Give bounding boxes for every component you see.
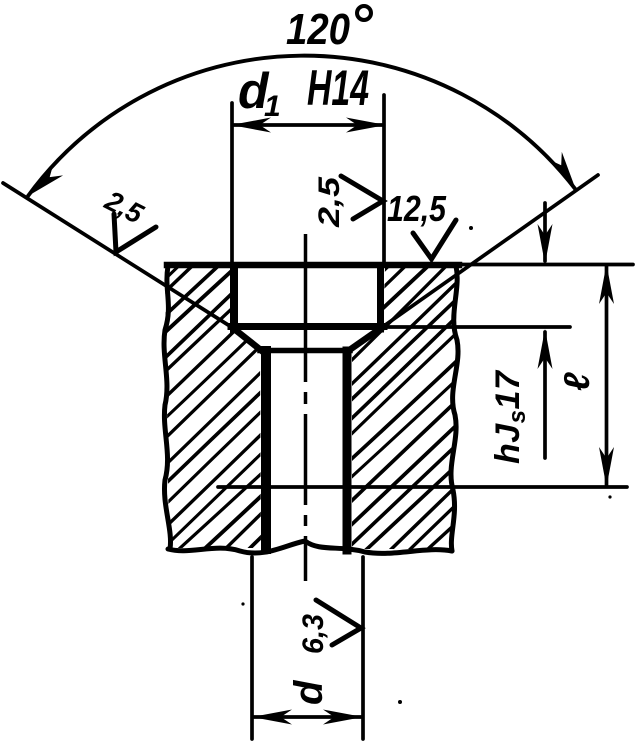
svg-text:2,5: 2,5 [313,175,346,228]
svg-text:H14: H14 [307,60,369,116]
svg-text:1: 1 [264,90,281,123]
svg-text:d: d [287,679,331,705]
svg-text:120: 120 [286,5,350,54]
svg-text:hJs17: hJs17 [489,369,531,464]
svg-text:12,5: 12,5 [387,188,447,229]
svg-text:ℓ: ℓ [556,372,597,391]
svg-text:6,3: 6,3 [297,614,330,654]
svg-text:2,5: 2,5 [99,184,148,229]
